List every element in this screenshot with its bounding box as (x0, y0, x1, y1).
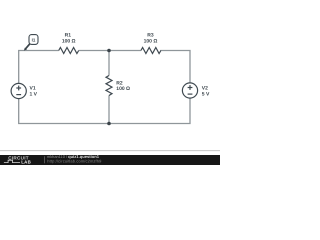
voltage source V2 (182, 83, 197, 98)
wire middle branch upper (108, 51, 110, 76)
resistor R1 (59, 48, 79, 54)
node junction bottom (107, 122, 111, 126)
svg-text:LAB: LAB (21, 160, 31, 165)
resistor R3 (141, 48, 161, 54)
wire bottom segment (19, 98, 190, 124)
CircuitLab logo waveform (4, 160, 20, 162)
svg-text:1 V: 1 V (30, 91, 38, 97)
svg-text:http://circuitlab.com/c2mzfh9: http://circuitlab.com/c2mzfh9 (47, 158, 102, 163)
resistor R2 (106, 76, 112, 96)
voltage source V1 (11, 83, 26, 98)
wire top-left segment (19, 51, 59, 84)
footer bar (0, 155, 220, 165)
wire top-right segment (160, 51, 190, 84)
node junction top (107, 49, 111, 53)
current probe flag I1 arrowhead (24, 48, 27, 51)
svg-text:I1: I1 (32, 38, 36, 43)
logo/text divider (44, 156, 46, 163)
wire top-middle segment (79, 50, 141, 52)
separator line above footer (0, 150, 220, 152)
svg-text:100 Ω: 100 Ω (116, 86, 130, 92)
svg-text:100 Ω: 100 Ω (62, 38, 76, 44)
wire middle branch lower (108, 96, 110, 124)
current probe flag I1 box (29, 35, 38, 45)
svg-text:5 V: 5 V (202, 91, 210, 97)
current probe flag I1 pointer (25, 44, 30, 50)
svg-text:100 Ω: 100 Ω (144, 38, 158, 44)
